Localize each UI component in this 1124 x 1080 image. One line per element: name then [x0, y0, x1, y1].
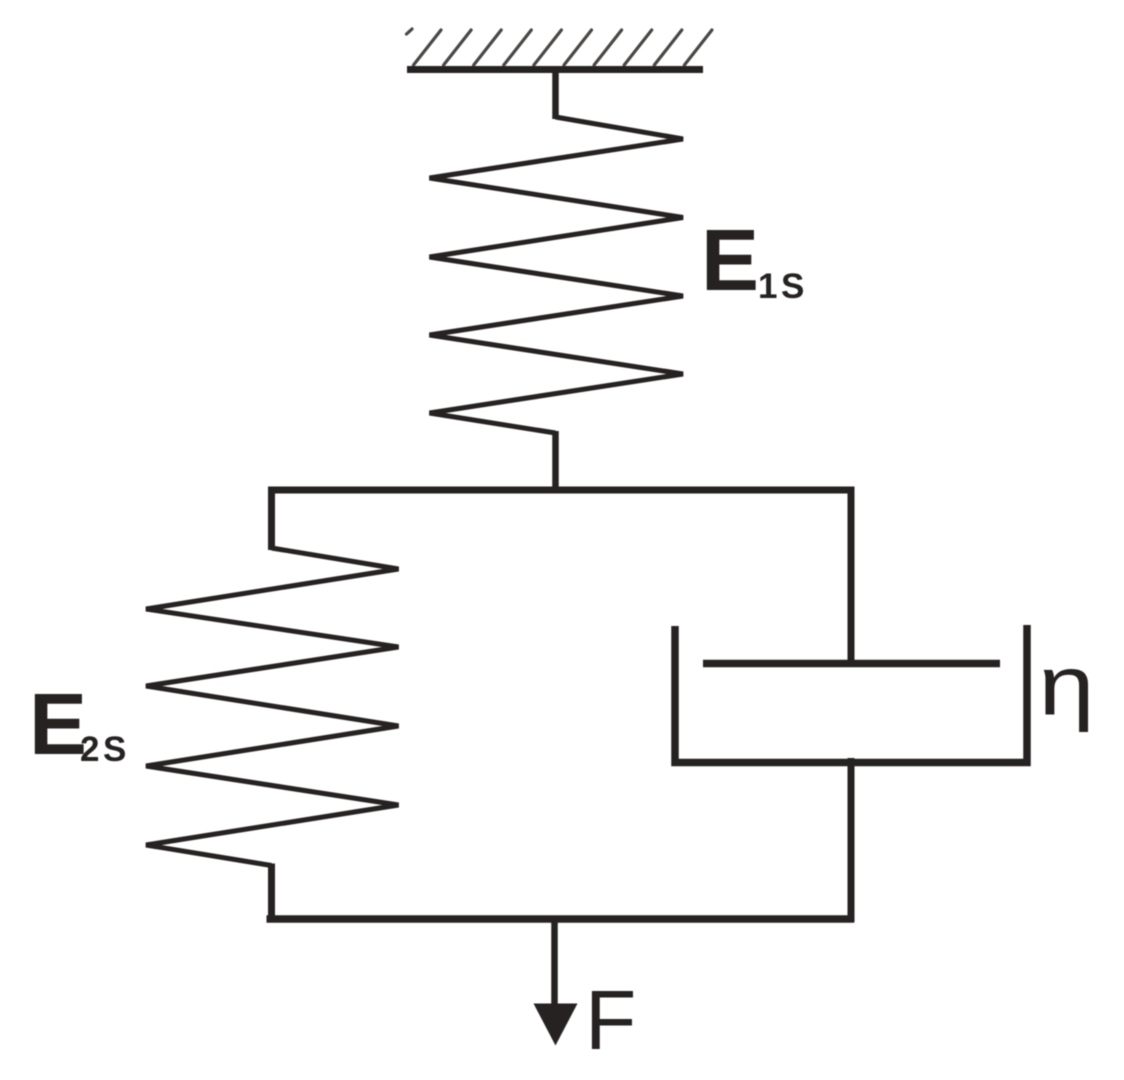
label E1s [701, 212, 808, 309]
dashpot piston plate [703, 660, 1000, 668]
wire: left vertical lower segment [268, 864, 275, 923]
svg-text:2S: 2S [80, 730, 130, 769]
svg-text:F: F [585, 973, 636, 1067]
fixed support bar [407, 66, 703, 73]
fixed support hatching [407, 29, 712, 65]
wire: rod from spring E1s down to parallel frame [552, 431, 559, 494]
wire: bottom bar of parallel frame [267, 915, 854, 923]
label E2s [29, 676, 130, 773]
spring E2s [146, 548, 399, 866]
label eta [1039, 638, 1095, 732]
svg-text:η: η [1039, 638, 1095, 732]
dashpot cylinder (cup) [675, 625, 1027, 763]
wire: right vertical from frame top to dashpot piston [848, 487, 855, 668]
force arrow F head [534, 1004, 578, 1046]
wire: rod from support down to spring E1s [552, 70, 559, 120]
svg-text:E: E [701, 212, 759, 309]
wire: top bar of parallel frame [268, 487, 855, 494]
spring E1s [430, 117, 684, 433]
wire: rod from dashpot cup to frame bottom [848, 758, 855, 923]
wire: left vertical upper segment [268, 487, 275, 551]
svg-text:1S: 1S [758, 267, 808, 306]
force arrow F shaft [551, 916, 558, 1010]
svg-text:E: E [29, 676, 87, 773]
